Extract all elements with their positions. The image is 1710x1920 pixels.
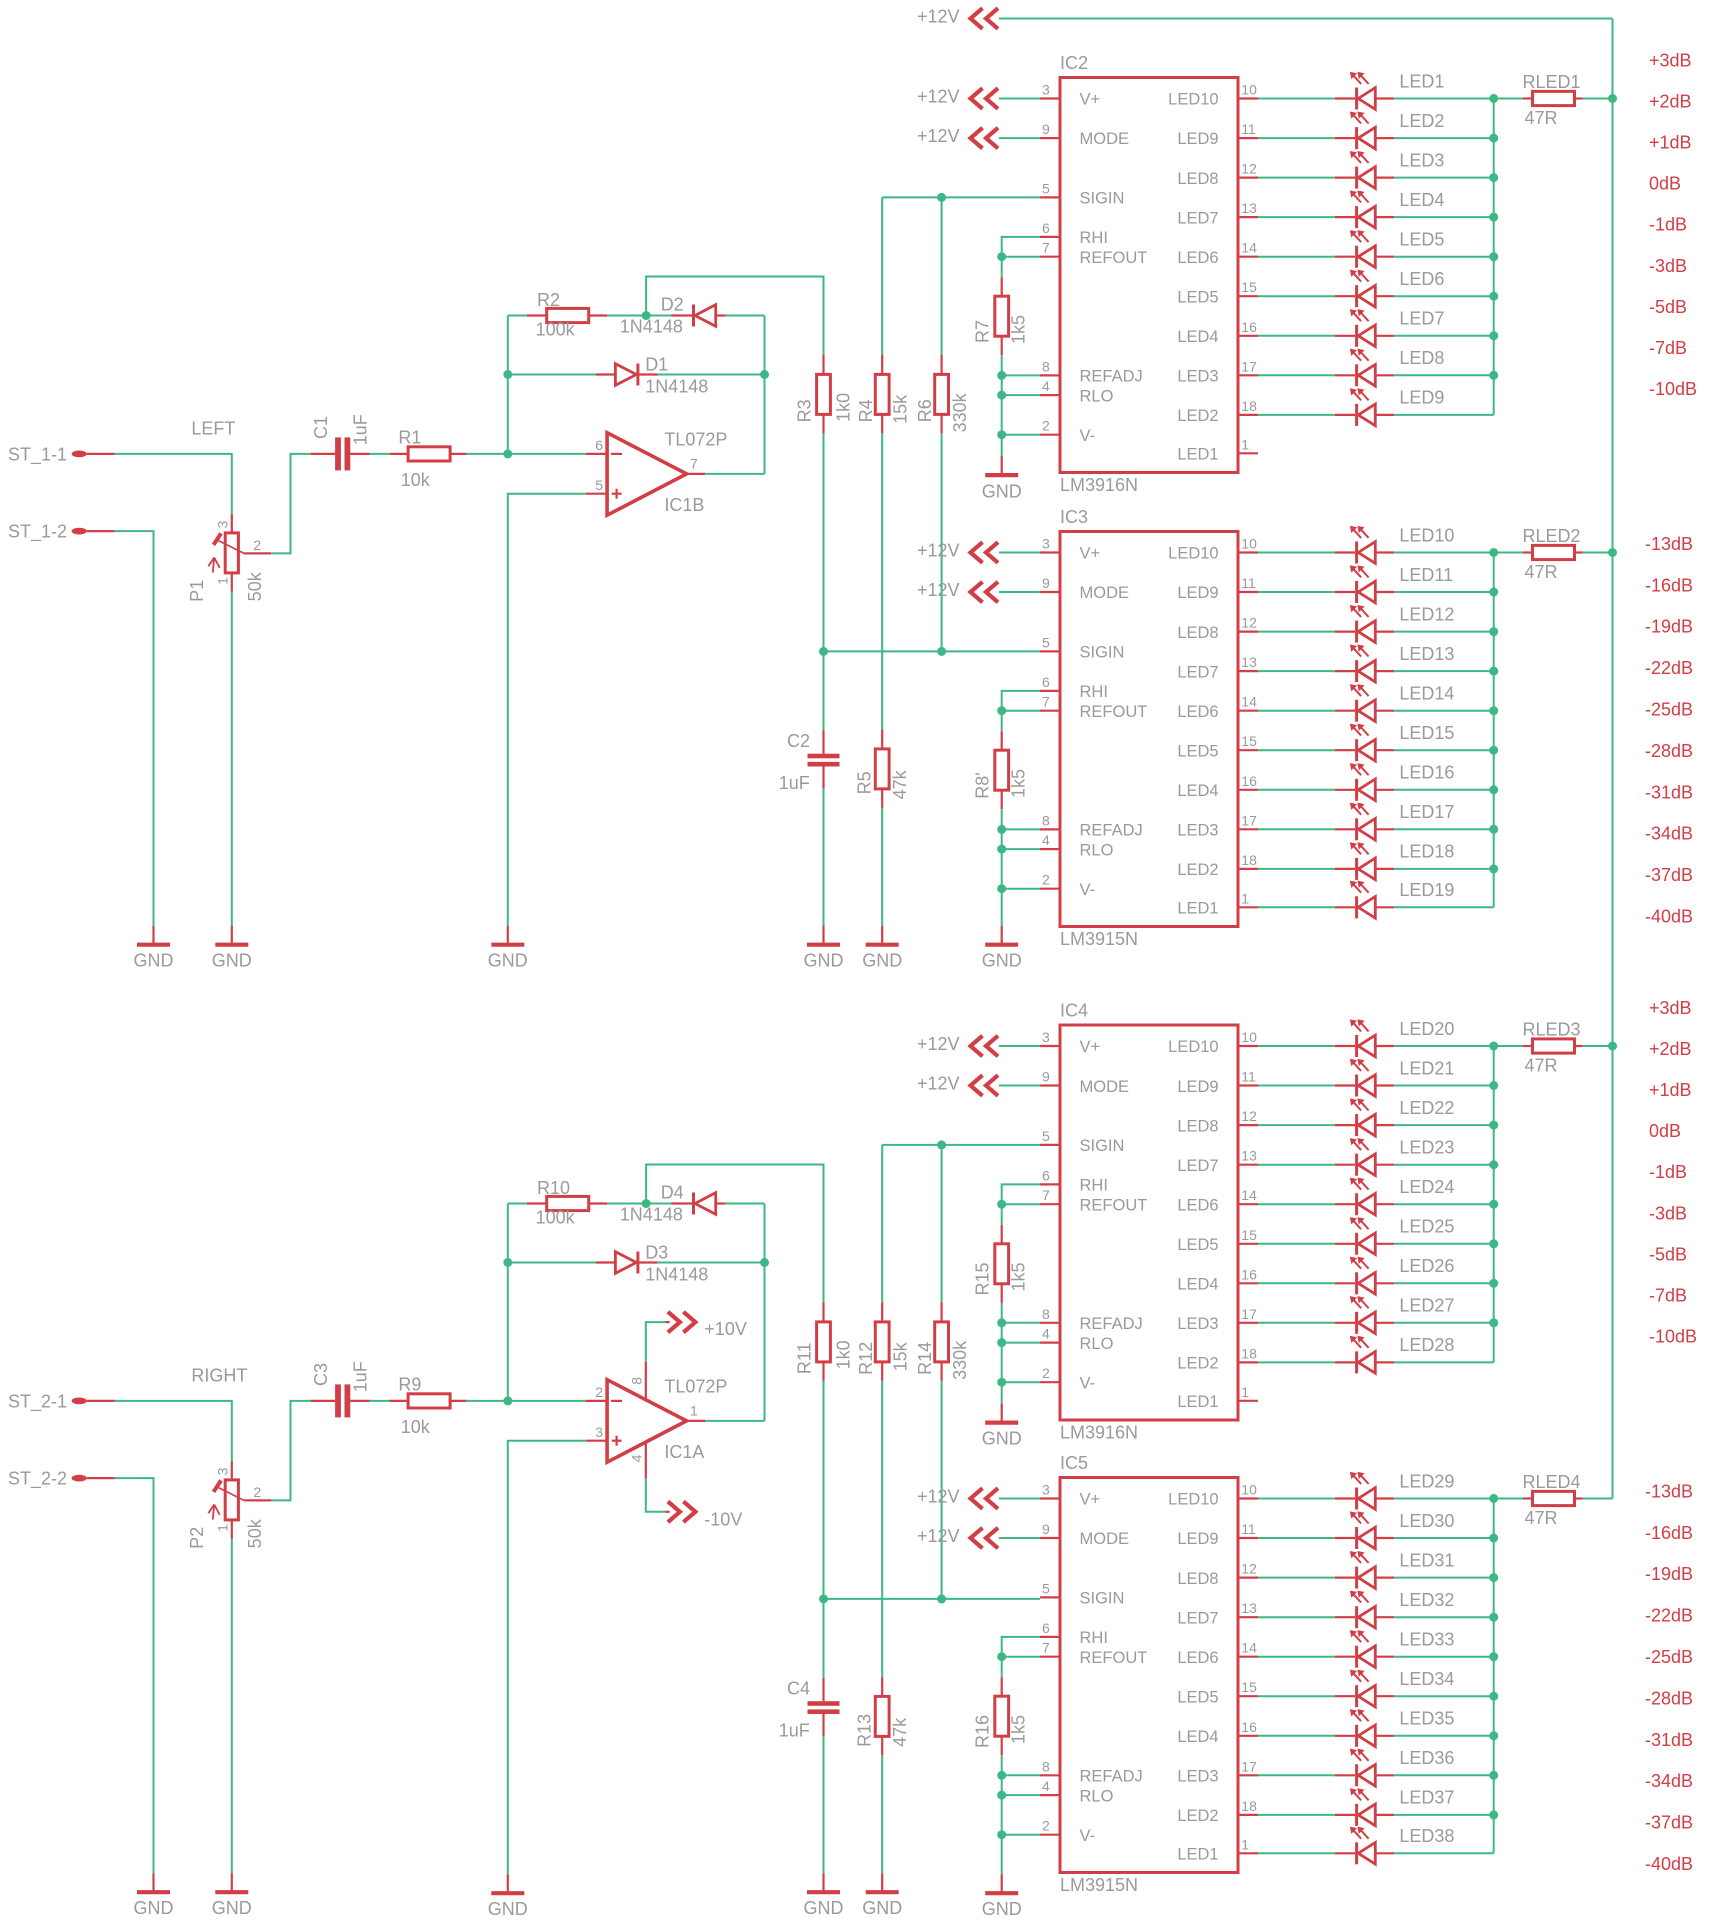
resistor R1 <box>390 453 409 455</box>
wire <box>1394 670 1494 672</box>
diode D4 <box>646 1203 671 1205</box>
junction <box>1489 1239 1498 1248</box>
IC5 pin 17 (LED3) <box>1238 1774 1258 1776</box>
junction <box>1489 1573 1498 1582</box>
IC3 pin 12 (LED8) <box>1238 630 1258 632</box>
wire <box>508 1441 586 1875</box>
IC4 pin 3 (V+) <box>1040 1045 1060 1047</box>
svg-text:LED3: LED3 <box>1177 1768 1218 1786</box>
IC3 pin 4 (RLO) <box>1040 848 1060 850</box>
wire <box>1258 1735 1335 1737</box>
svg-text:-3dB: -3dB <box>1649 256 1687 276</box>
svg-text:LED6: LED6 <box>1177 703 1218 721</box>
wire <box>1258 137 1335 139</box>
svg-text:R15: R15 <box>972 1262 992 1295</box>
wire <box>1002 1322 1040 1324</box>
svg-text:6: 6 <box>1042 220 1050 236</box>
IC4 pin 10 (LED10) <box>1238 1045 1258 1047</box>
svg-text:ST_2-1: ST_2-1 <box>8 1391 67 1412</box>
svg-text:LM3915N: LM3915N <box>1060 1875 1138 1895</box>
IC3 pin 7 (REFOUT) <box>1040 710 1060 712</box>
svg-text:LED29: LED29 <box>1399 1471 1454 1491</box>
svg-text:LED4: LED4 <box>1177 782 1218 800</box>
wire <box>1394 1656 1494 1658</box>
IC2 pin 2 (V-) <box>1040 434 1060 436</box>
svg-text:REFOUT: REFOUT <box>1080 1196 1148 1214</box>
junction <box>1489 1771 1498 1780</box>
svg-text:7: 7 <box>1042 240 1050 256</box>
junction <box>997 825 1006 834</box>
+12V supply arrow <box>971 1488 983 1509</box>
wire <box>1002 710 1040 712</box>
svg-text:R2: R2 <box>537 290 560 310</box>
svg-text:IC4: IC4 <box>1060 1000 1088 1020</box>
svg-text:C3: C3 <box>311 1363 331 1386</box>
wire <box>823 433 825 651</box>
IC5 pin 16 (LED4) <box>1238 1735 1258 1737</box>
svg-text:LED16: LED16 <box>1399 763 1454 783</box>
svg-text:12: 12 <box>1241 1108 1257 1124</box>
IC3 pin 18 (LED2) <box>1238 868 1258 870</box>
wire <box>1394 1577 1494 1579</box>
svg-text:-1dB: -1dB <box>1649 215 1687 235</box>
svg-text:LED1: LED1 <box>1177 1846 1218 1864</box>
IC2 pin 18 (LED2) <box>1238 414 1258 416</box>
svg-text:+10V: +10V <box>704 1319 747 1339</box>
svg-text:GND: GND <box>488 1899 528 1919</box>
wire <box>1001 1204 1003 1225</box>
wire <box>999 137 1040 139</box>
svg-text:LED8: LED8 <box>1399 348 1444 368</box>
wire <box>115 1401 232 1461</box>
junction <box>1489 173 1498 182</box>
svg-text:9: 9 <box>1042 121 1050 137</box>
svg-text:1N4148: 1N4148 <box>645 1264 708 1284</box>
svg-text:R4: R4 <box>856 399 876 422</box>
svg-text:V-: V- <box>1080 1374 1096 1392</box>
svg-text:LED12: LED12 <box>1399 604 1454 624</box>
svg-text:GND: GND <box>488 951 528 971</box>
junction <box>503 1258 512 1267</box>
svg-text:+3dB: +3dB <box>1649 998 1692 1018</box>
svg-text:-37dB: -37dB <box>1645 1813 1693 1833</box>
IC4 pin 6 (RHI) <box>1040 1183 1060 1185</box>
svg-text:0dB: 0dB <box>1649 1121 1681 1141</box>
resistor RLED3 <box>1494 1045 1523 1047</box>
svg-text:13: 13 <box>1241 200 1257 216</box>
IC5 pin 2 (V-) <box>1040 1834 1060 1836</box>
wire <box>726 315 765 317</box>
svg-text:50k: 50k <box>245 571 265 601</box>
svg-text:RHI: RHI <box>1080 683 1108 701</box>
svg-text:+12V: +12V <box>917 540 960 560</box>
svg-text:-13dB: -13dB <box>1645 534 1693 554</box>
wire <box>1002 691 1040 711</box>
IC4 pin 11 (LED9) <box>1238 1084 1258 1086</box>
svg-text:-34dB: -34dB <box>1645 1771 1693 1791</box>
IC3 pin 8 (REFADJ) <box>1040 828 1060 830</box>
svg-text:LED4: LED4 <box>1177 1276 1218 1294</box>
svg-text:R9: R9 <box>398 1375 421 1395</box>
wire <box>1258 710 1335 712</box>
svg-text:13: 13 <box>1241 654 1257 670</box>
svg-text:LED38: LED38 <box>1399 1826 1454 1846</box>
IC4 pin 14 (LED6) <box>1238 1203 1258 1205</box>
svg-text:+12V: +12V <box>917 1486 960 1506</box>
svg-text:18: 18 <box>1241 1345 1257 1361</box>
svg-text:V-: V- <box>1080 427 1096 445</box>
wire <box>999 98 1040 100</box>
wire <box>1258 1203 1335 1205</box>
svg-text:12: 12 <box>1241 1561 1257 1577</box>
junction <box>1608 548 1617 557</box>
connector ST_2-2 pin <box>72 1475 87 1482</box>
svg-text:IC1B: IC1B <box>664 495 704 515</box>
svg-text:5: 5 <box>1042 634 1050 650</box>
wire <box>1394 868 1494 870</box>
junction <box>1608 94 1617 103</box>
+12V supply arrow <box>971 1075 983 1096</box>
svg-text:LED1: LED1 <box>1399 71 1444 91</box>
+12V supply arrow <box>971 128 983 149</box>
svg-text:D4: D4 <box>661 1183 684 1203</box>
ground <box>822 1873 824 1892</box>
wire <box>999 591 1040 593</box>
IC5 pin 18 (LED2) <box>1238 1814 1258 1816</box>
svg-text:-13dB: -13dB <box>1645 1481 1693 1501</box>
junction <box>997 1200 1006 1209</box>
wire <box>231 1539 233 1874</box>
svg-text:-40dB: -40dB <box>1645 907 1693 927</box>
wire SIGIN IC3 <box>824 650 1041 652</box>
svg-text:IC3: IC3 <box>1060 507 1088 527</box>
svg-text:+2dB: +2dB <box>1649 91 1692 111</box>
wire <box>1258 1085 1335 1087</box>
ground <box>231 1873 233 1892</box>
svg-text:LED22: LED22 <box>1399 1098 1454 1118</box>
connector ST_1-1 pin <box>72 451 87 458</box>
svg-text:1: 1 <box>215 1524 231 1532</box>
svg-text:4: 4 <box>1042 1326 1050 1342</box>
svg-text:GND: GND <box>212 951 252 971</box>
svg-text:1: 1 <box>1241 1836 1249 1852</box>
IC5 pin 13 (LED7) <box>1238 1616 1258 1618</box>
IC3 pin 5 (SIGIN) <box>1040 650 1060 652</box>
wire <box>646 277 823 355</box>
IC3 pin 11 (LED9) <box>1238 591 1258 593</box>
svg-text:10: 10 <box>1241 1029 1257 1045</box>
IC5 pin 9 (MODE) <box>1040 1537 1060 1539</box>
junction <box>997 252 1006 261</box>
IC5 pin 7 (REFOUT) <box>1040 1656 1060 1658</box>
svg-text:SIGIN: SIGIN <box>1080 1137 1125 1155</box>
svg-text:RHI: RHI <box>1080 229 1108 247</box>
wire <box>271 454 311 554</box>
IC5 pin 5 (SIGIN) <box>1040 1596 1060 1598</box>
svg-text:RHI: RHI <box>1080 1629 1108 1647</box>
resistor R13 <box>881 1677 883 1696</box>
svg-text:13: 13 <box>1241 1600 1257 1616</box>
wire <box>645 1442 647 1479</box>
svg-text:330k: 330k <box>950 1340 970 1380</box>
svg-text:47k: 47k <box>890 769 910 799</box>
wire <box>645 1362 647 1400</box>
IC4 pin 18 (LED2) <box>1238 1361 1258 1363</box>
wire <box>115 1478 154 1873</box>
svg-text:1: 1 <box>1241 436 1249 452</box>
junction <box>937 1594 946 1603</box>
svg-text:47R: 47R <box>1525 562 1558 582</box>
svg-text:330k: 330k <box>950 392 970 432</box>
svg-text:5: 5 <box>595 477 603 493</box>
svg-text:2: 2 <box>595 1384 603 1400</box>
svg-text:15k: 15k <box>891 1341 911 1371</box>
wire <box>1394 335 1494 337</box>
IC4 pin 9 (MODE) <box>1040 1084 1060 1086</box>
svg-text:LED14: LED14 <box>1399 684 1454 704</box>
svg-text:11: 11 <box>1241 121 1256 137</box>
svg-text:LED35: LED35 <box>1399 1709 1454 1729</box>
svg-text:LED9: LED9 <box>1177 130 1218 148</box>
svg-text:3: 3 <box>595 1424 603 1440</box>
svg-text:V+: V+ <box>1080 91 1101 109</box>
svg-text:-22dB: -22dB <box>1645 658 1693 678</box>
IC2 pin 1 (LED1) <box>1238 452 1258 454</box>
wire <box>1002 1203 1040 1205</box>
IC4 pin 4 (RLO) <box>1040 1341 1060 1343</box>
svg-text:16: 16 <box>1241 319 1257 335</box>
junction <box>937 193 946 202</box>
diode D3 <box>508 1262 596 1264</box>
junction <box>503 1396 512 1405</box>
wire <box>1002 256 1040 258</box>
wire <box>1002 237 1040 257</box>
svg-text:-40dB: -40dB <box>1645 1854 1693 1874</box>
svg-text:16: 16 <box>1241 1719 1257 1735</box>
ground <box>1001 1874 1003 1893</box>
svg-text:LED5: LED5 <box>1177 1689 1218 1707</box>
+12V supply arrow <box>971 1528 983 1549</box>
svg-text:15k: 15k <box>891 394 911 424</box>
wire <box>1258 1164 1335 1166</box>
wire <box>1258 177 1335 179</box>
wire <box>1258 1814 1335 1816</box>
svg-text:5: 5 <box>1042 1128 1050 1144</box>
svg-text:SIGIN: SIGIN <box>1080 190 1125 208</box>
svg-text:-10dB: -10dB <box>1649 1327 1697 1347</box>
junction <box>997 845 1006 854</box>
svg-text:15: 15 <box>1241 733 1257 749</box>
svg-text:TL072P: TL072P <box>664 1377 727 1397</box>
svg-text:MODE: MODE <box>1080 584 1130 602</box>
junction <box>1489 1731 1498 1740</box>
svg-text:LED3: LED3 <box>1177 822 1218 840</box>
svg-text:-1dB: -1dB <box>1649 1162 1687 1182</box>
wire <box>1002 374 1040 376</box>
IC5 pin 14 (LED6) <box>1238 1656 1258 1658</box>
svg-text:47R: 47R <box>1525 1508 1558 1528</box>
svg-text:4: 4 <box>1042 832 1050 848</box>
wire <box>1394 1164 1494 1166</box>
svg-text:9: 9 <box>1042 1069 1050 1085</box>
svg-text:LED8: LED8 <box>1177 624 1218 642</box>
wire <box>370 453 390 455</box>
wire <box>1001 1755 1003 1835</box>
wire <box>1258 1537 1335 1539</box>
wire <box>1258 1695 1335 1697</box>
wire <box>1394 1203 1494 1205</box>
wire <box>1001 1382 1003 1403</box>
svg-text:R3: R3 <box>795 399 815 422</box>
+12V supply arrow <box>971 8 983 29</box>
+12V supply arrow <box>971 1036 983 1057</box>
svg-text:LED5: LED5 <box>1399 230 1444 250</box>
wire <box>1258 1656 1335 1658</box>
svg-text:LED1: LED1 <box>1177 446 1218 464</box>
wire <box>1258 1243 1335 1245</box>
svg-text:RLO: RLO <box>1080 841 1114 859</box>
junction <box>1489 1613 1498 1622</box>
svg-text:LED20: LED20 <box>1399 1019 1454 1039</box>
IC5 pin 4 (RLO) <box>1040 1794 1060 1796</box>
IC4 pin 1 (LED1) <box>1238 1400 1258 1402</box>
svg-text:1: 1 <box>1241 890 1249 906</box>
svg-text:RLED4: RLED4 <box>1523 1472 1581 1492</box>
junction <box>1489 1318 1498 1327</box>
wire <box>508 494 586 926</box>
svg-text:6: 6 <box>1042 1167 1050 1183</box>
wire <box>1258 1498 1335 1500</box>
wire <box>466 1400 585 1402</box>
svg-text:LED3: LED3 <box>1177 1315 1218 1333</box>
svg-text:REFOUT: REFOUT <box>1080 1649 1148 1667</box>
wire <box>1258 631 1335 633</box>
resistor R15 body <box>1001 1225 1003 1244</box>
svg-text:10k: 10k <box>401 1417 431 1437</box>
resistor RLED4 <box>1494 1498 1523 1500</box>
IC4 pin 8 (REFADJ) <box>1040 1322 1060 1324</box>
svg-text:-3dB: -3dB <box>1649 1203 1687 1223</box>
wire <box>1258 828 1335 830</box>
diode D2 <box>646 315 671 317</box>
svg-text:LED8: LED8 <box>1177 170 1218 188</box>
svg-text:REFADJ: REFADJ <box>1080 822 1143 840</box>
svg-text:1: 1 <box>690 1403 698 1419</box>
junction <box>1489 825 1498 834</box>
svg-text:1uF: 1uF <box>350 1361 370 1392</box>
svg-text:V-: V- <box>1080 1827 1096 1845</box>
junction <box>937 647 946 656</box>
IC3 pin 9 (MODE) <box>1040 591 1060 593</box>
potentiometer P1 <box>231 514 233 533</box>
svg-text:RLO: RLO <box>1080 1787 1114 1805</box>
junction <box>642 1199 651 1208</box>
wire <box>1001 355 1003 435</box>
wire <box>1001 257 1003 278</box>
junction <box>760 370 769 379</box>
svg-text:V+: V+ <box>1080 1038 1101 1056</box>
wire <box>1394 1085 1494 1087</box>
IC4 pin 13 (LED7) <box>1238 1164 1258 1166</box>
junction <box>997 1771 1006 1780</box>
wire <box>1394 710 1494 712</box>
svg-text:D1: D1 <box>645 354 668 374</box>
svg-text:LEFT: LEFT <box>191 419 235 439</box>
wire <box>1394 177 1494 179</box>
svg-text:-25dB: -25dB <box>1645 1647 1693 1667</box>
junction <box>503 370 512 379</box>
wire <box>1394 137 1494 139</box>
svg-text:-7dB: -7dB <box>1649 1286 1687 1306</box>
svg-text:IC2: IC2 <box>1060 53 1088 73</box>
IC3 pin 14 (LED6) <box>1238 710 1258 712</box>
wire <box>881 1381 883 1677</box>
junction <box>1489 1534 1498 1543</box>
junction <box>1489 1652 1498 1661</box>
svg-text:2: 2 <box>253 1484 261 1500</box>
capacitor C3 <box>311 1400 335 1402</box>
svg-text:+2dB: +2dB <box>1649 1039 1692 1059</box>
wire <box>999 1085 1040 1087</box>
wire LED cathode bus <box>1493 1499 1495 1854</box>
wire <box>1258 906 1335 908</box>
svg-text:LED15: LED15 <box>1399 723 1454 743</box>
svg-text:+1dB: +1dB <box>1649 1080 1692 1100</box>
junction <box>1489 94 1498 103</box>
wire <box>1001 1835 1003 1875</box>
wire <box>507 1204 509 1401</box>
IC4 pin 5 (SIGIN) <box>1040 1144 1060 1146</box>
svg-text:LED7: LED7 <box>1177 663 1218 681</box>
svg-text:LED6: LED6 <box>1177 1649 1218 1667</box>
wire <box>1258 591 1335 593</box>
svg-text:LED18: LED18 <box>1399 842 1454 862</box>
junction <box>1608 1042 1617 1051</box>
junction <box>1489 1279 1498 1288</box>
svg-text:P1: P1 <box>187 580 207 602</box>
junction <box>1489 1042 1498 1051</box>
svg-text:-5dB: -5dB <box>1649 297 1687 317</box>
svg-text:GND: GND <box>804 1898 844 1918</box>
svg-text:47R: 47R <box>1525 1056 1558 1076</box>
svg-text:LED19: LED19 <box>1399 880 1454 900</box>
junction <box>1489 1160 1498 1169</box>
svg-text:10k: 10k <box>401 470 431 490</box>
wire <box>1001 809 1003 889</box>
wire <box>1394 591 1494 593</box>
wire <box>1394 1814 1494 1816</box>
svg-text:LED31: LED31 <box>1399 1550 1454 1570</box>
svg-text:-28dB: -28dB <box>1645 741 1693 761</box>
svg-text:17: 17 <box>1241 358 1257 374</box>
ground <box>1001 926 1003 945</box>
wire <box>1394 1124 1494 1126</box>
wire <box>1394 631 1494 633</box>
IC3 pin 10 (LED10) <box>1238 551 1258 553</box>
svg-text:REFADJ: REFADJ <box>1080 1768 1143 1786</box>
wire <box>607 315 646 317</box>
svg-text:R10: R10 <box>537 1178 570 1198</box>
IC2 pin 11 (LED9) <box>1238 137 1258 139</box>
capacitor C2 <box>822 730 824 754</box>
svg-text:LED9: LED9 <box>1399 388 1444 408</box>
svg-text:LED7: LED7 <box>1177 1157 1218 1175</box>
svg-text:LED23: LED23 <box>1399 1138 1454 1158</box>
wire <box>999 1045 1040 1047</box>
junction <box>997 1830 1006 1839</box>
junction <box>1489 1121 1498 1130</box>
svg-text:IC1A: IC1A <box>664 1442 704 1462</box>
